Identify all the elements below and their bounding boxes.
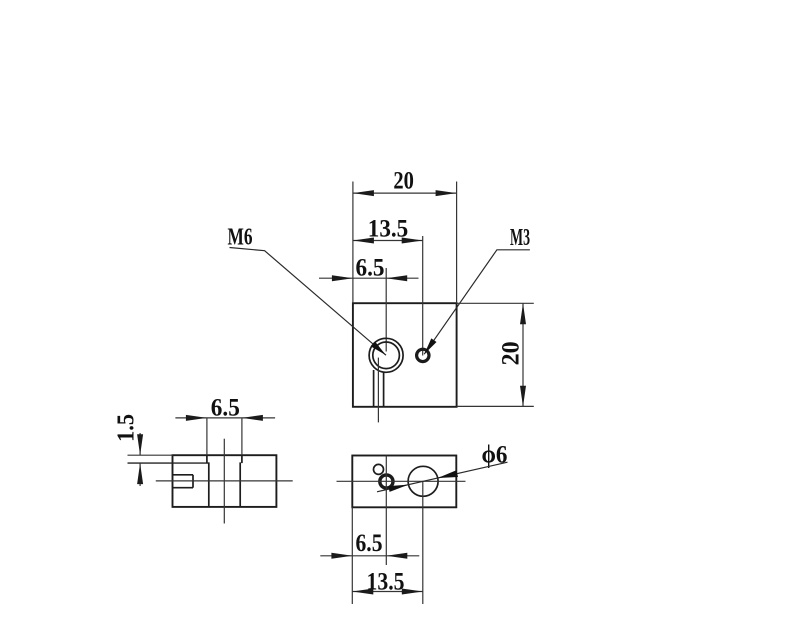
svg-text:6.5: 6.5 [211,394,240,421]
M3 hole circle [417,349,429,361]
leader M6 [230,248,387,356]
sensor notch bottom [173,487,194,489]
arrowhead 6.5s right [242,415,263,421]
arrowhead 20v bottom [520,386,526,407]
arrowhead 20v top [520,303,526,324]
dimension 6.5 (top) line [319,277,419,279]
svg-text:6.5: 6.5 [356,254,385,281]
svg-text:1.5: 1.5 [114,414,140,442]
arrowhead 1.5 top (points down) [137,434,143,455]
slit right edge below M6 [383,373,385,407]
extension line right edge (20 top dim) [456,182,458,304]
leader phi6 diameter line [377,462,508,492]
dimension 13.5 (bottom view) line [352,591,423,593]
arrowhead 6.5 left (outside, points right) [332,275,353,281]
arrowhead 6.5s left [186,415,207,421]
extension line top-right (20 vertical dim) [457,302,534,304]
M6 hole outer circle [369,338,403,372]
top view outline [353,303,457,407]
small hole circle [374,464,384,474]
arrowhead 20 left [353,190,374,196]
dimension 20 (right, vertical) line [522,303,524,407]
bottom view outline [352,456,456,508]
hole right wall upper [241,455,243,463]
dimension 6.5 (side view) line [175,417,275,419]
extension line large hole center (13.5 dim) [422,481,424,604]
large hole circle [408,466,438,496]
side view vertical centerline [223,439,225,524]
sensor notch top [173,474,194,476]
hole left wall upper [206,455,208,463]
dimension 1.5 line lower [139,463,141,486]
extension line 6.5 (to M6 hole center) [385,268,387,352]
side view outline [173,455,277,507]
arrowhead phi6 right (points left-down at circle) [438,470,458,478]
svg-text:20: 20 [498,341,525,365]
arrowhead 1.5 bottom (points up) [137,463,143,484]
leader M3 [424,250,530,354]
arrowhead 6.5 right (outside, points left) [386,275,407,281]
extension line top edge (1.5 dim) [128,454,173,456]
M6 hole inner circle [373,342,400,369]
arrowhead 13.5b right [402,589,423,595]
arrowhead M6 leader [371,342,386,356]
arrowhead 13.5b left [352,589,373,595]
arrowhead 13.5 left [353,238,374,244]
svg-text:ϕ6: ϕ6 [482,442,508,469]
dimension 20 (top, horizontal) line [353,192,457,194]
sensor notch right [192,475,194,488]
arrowhead 6.5b left (points right) [331,553,352,559]
extension line hole left (6.5 dim side) [206,418,208,455]
hole right wall lower [239,462,241,506]
dimension 13.5 (top) line [353,240,423,242]
counterbore step line (1.5 deep) [128,462,209,464]
svg-text:20: 20 [393,168,414,195]
extension line bottom-right (20 vertical dim) [457,405,534,407]
svg-text:M6: M6 [228,224,253,250]
side view horizontal centerline [156,480,293,482]
svg-text:M3: M3 [510,225,530,251]
slit centerline [377,358,379,423]
svg-text:13.5: 13.5 [367,568,405,595]
extension line 13.5 (to M3 hole) [422,236,424,356]
arrowhead 13.5 right [402,238,423,244]
bottom view vertical centerline / ext 6.5 [385,456,387,566]
svg-text:13.5: 13.5 [368,216,409,243]
hole left wall lower [208,462,210,506]
slit left edge below M6 [373,370,375,407]
arrowhead phi6 left (points right-up at circle) [388,485,408,492]
extension line hole right (6.5 dim side) [241,418,243,455]
phi6 heatbreak hole (thick ring) [380,475,393,488]
bottom view horizontal centerline [337,480,466,482]
arrowhead M3 leader [424,338,436,354]
extension line bottom-left corner [351,507,353,604]
dimension 6.5 (bottom view) line [320,555,419,557]
arrowhead 6.5b right (points left) [386,553,407,559]
dimension 1.5 (left, vertical) line upper [139,433,141,455]
svg-text:6.5: 6.5 [356,530,383,557]
extension line left edge (20/13.5/6.5 dims) [352,182,354,304]
arrowhead 20 right [436,190,457,196]
